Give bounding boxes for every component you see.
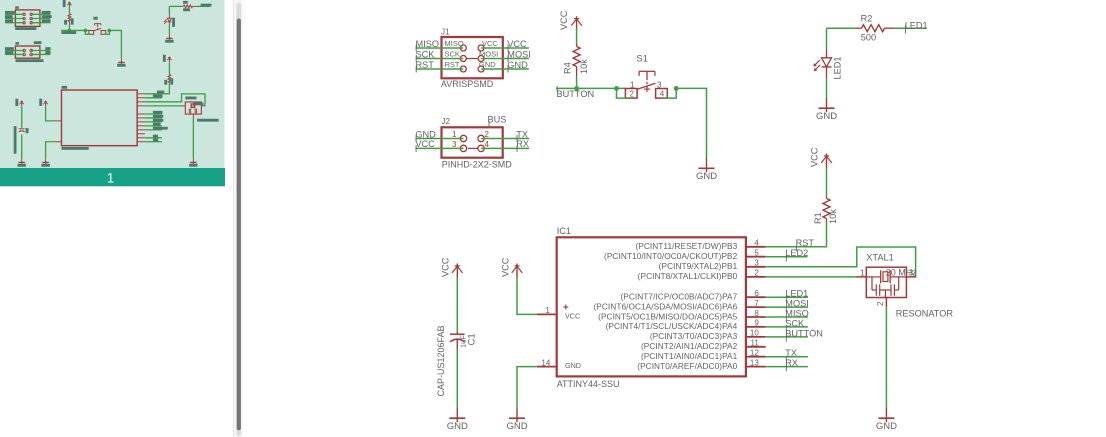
svg-text:GND: GND: [507, 60, 528, 70]
svg-text:LED1: LED1: [833, 57, 843, 80]
svg-text:MISO: MISO: [445, 39, 464, 48]
svg-text:GND: GND: [565, 361, 581, 370]
pin 10 (PCINT3/T0/ADC3)PA3: [650, 329, 766, 342]
svg-text:AVRISPSMD: AVRISPSMD: [441, 79, 494, 89]
svg-text:2: 2: [876, 301, 885, 306]
net label TX: [785, 348, 797, 361]
svg-text:2: 2: [754, 269, 759, 278]
pin 13 (PCINT0/AREF/ADC0)PA0: [637, 358, 765, 371]
wire J1 to MOSI: [481, 58, 529, 60]
svg-text:XTAL1: XTAL1: [866, 253, 893, 263]
pin 5 (PCINT10/INT0/OC0A/CKOUT)PB2: [604, 249, 766, 262]
svg-text:(PCINT7/ICP/OC0B/ADC7)PA7: (PCINT7/ICP/OC0B/ADC7)PA7: [620, 292, 737, 302]
wire LED1 net: [827, 27, 857, 29]
svg-text:SCK: SCK: [416, 49, 436, 59]
svg-text:(PCINT11/RESET/DW)PB3: (PCINT11/RESET/DW)PB3: [635, 241, 737, 251]
net label LED1: [905, 21, 928, 34]
svg-text:GND: GND: [415, 129, 436, 139]
pin 7 (PCINT6/OC1A/SDA/MOSI/ADC6)PA6: [593, 299, 765, 312]
svg-text:1: 1: [860, 268, 865, 277]
connector J1 AVRISPSMD: [441, 27, 503, 78]
svg-text:IC1: IC1: [557, 226, 571, 236]
ground GND (LED1): [816, 98, 837, 122]
svg-text:(PCINT5/OC1B/MISO/DO/ADC5)PA5: (PCINT5/OC1B/MISO/DO/ADC5)PA5: [598, 311, 737, 321]
net label LED1: [785, 289, 808, 302]
net label LED2: [785, 248, 808, 262]
resonator XTAL1 20MHz: [857, 253, 954, 319]
wire: [826, 28, 828, 48]
svg-text:R1: R1: [813, 212, 823, 224]
wire: [617, 88, 631, 98]
svg-text:RX: RX: [516, 139, 529, 149]
svg-text:1uF: 1uF: [459, 335, 468, 348]
wire LED1 net: [766, 296, 808, 298]
wire: [895, 27, 926, 29]
svg-text:2: 2: [485, 130, 490, 139]
svg-text:GND: GND: [479, 60, 496, 69]
svg-text:9: 9: [754, 319, 759, 328]
net label SCK: [785, 318, 805, 331]
wire MOSI net: [766, 306, 808, 308]
scrollbar groove: [236, 3, 241, 437]
svg-text:TX: TX: [516, 129, 528, 139]
svg-text:SCK: SCK: [785, 318, 805, 328]
wire SCK to J1: [416, 58, 464, 60]
svg-text:MOSI: MOSI: [507, 49, 530, 59]
svg-text:3: 3: [754, 259, 759, 268]
resistor R2 500: [856, 14, 895, 43]
svg-text:TX: TX: [785, 348, 797, 358]
svg-text:BUS: BUS: [488, 115, 507, 125]
svg-text:12: 12: [750, 349, 759, 358]
svg-text:GND: GND: [816, 111, 837, 122]
wire VCC to J2: [415, 147, 463, 149]
resistor R4 10k: [563, 44, 590, 76]
wire VCC to pin 1: [517, 278, 537, 315]
svg-text:(PCINT1/AIN0/ADC1)PA1: (PCINT1/AIN0/ADC1)PA1: [641, 351, 738, 361]
pin 12 (PCINT1/AIN0/ADC1)PA1: [641, 349, 766, 362]
svg-text:RST: RST: [796, 238, 815, 248]
svg-text:(PCINT4/T1/SCL/USCK/ADC4)PA4: (PCINT4/T1/SCL/USCK/ADC4)PA4: [606, 321, 738, 331]
power VCC (IC): [500, 257, 522, 278]
ground GND (resonator): [876, 408, 897, 432]
svg-text:RESONATOR: RESONATOR: [896, 308, 954, 318]
svg-text:VCC: VCC: [809, 147, 819, 167]
svg-text:J2: J2: [442, 117, 451, 126]
pin 2 (PCINT8/XTAL1/CLKI)PB0: [638, 269, 766, 282]
svg-text:11: 11: [750, 339, 759, 348]
junction: [614, 86, 619, 91]
svg-text:GND: GND: [696, 171, 717, 182]
svg-text:GND: GND: [506, 421, 527, 432]
svg-text:MISO: MISO: [785, 308, 808, 318]
svg-text:10: 10: [750, 329, 759, 338]
wire: [576, 28, 578, 45]
wire: [664, 88, 677, 98]
svg-text:RX: RX: [785, 358, 798, 368]
power VCC (reset pull-up): [809, 147, 831, 168]
net label MISO: [416, 39, 439, 52]
junction: [574, 86, 579, 91]
wire J1 to GND: [481, 68, 529, 70]
svg-text:14: 14: [541, 358, 550, 367]
wire: [885, 307, 887, 408]
junction: [674, 86, 679, 91]
svg-text:J1: J1: [441, 27, 450, 36]
IC IC1 ATTINY44-SSU: [537, 226, 746, 389]
wire GND to J2: [415, 138, 463, 140]
svg-text:4: 4: [754, 239, 759, 248]
svg-text:VCC: VCC: [441, 257, 451, 277]
svg-text:13: 13: [750, 358, 759, 367]
svg-text:10k: 10k: [828, 209, 838, 224]
wire BUTTON net: [556, 87, 625, 89]
net label RST: [416, 60, 435, 73]
svg-text:8: 8: [754, 309, 759, 318]
resistor R1 10k: [813, 196, 838, 224]
svg-text:6: 6: [754, 289, 759, 298]
svg-text:VCC: VCC: [559, 10, 569, 30]
svg-text:VCC: VCC: [565, 312, 580, 321]
svg-text:(PCINT8/XTAL1/CLKI)PB0: (PCINT8/XTAL1/CLKI)PB0: [638, 271, 738, 281]
sheet tab bar: [0, 168, 225, 186]
svg-text:S1: S1: [636, 54, 648, 65]
wire SCK net: [766, 326, 808, 328]
sheet preview mini schematic: [5, 0, 219, 167]
svg-text:R2: R2: [861, 14, 873, 24]
svg-text:BUTTON: BUTTON: [785, 328, 823, 338]
ground GND (button): [696, 158, 717, 182]
pin 6 (PCINT7/ICP/OC0B/ADC7)PA7: [620, 289, 765, 302]
pin 3 (PCINT9/XTAL2)PB1: [659, 259, 766, 272]
switch S1: [625, 54, 667, 99]
svg-text:LED2: LED2: [785, 248, 808, 258]
scrollbar track: [233, 0, 243, 437]
wire J1 to VCC: [481, 47, 529, 49]
svg-text:(PCINT6/OC1A/SDA/MOSI/ADC6)PA6: (PCINT6/OC1A/SDA/MOSI/ADC6)PA6: [593, 301, 737, 311]
net label GND: [415, 129, 436, 142]
svg-text:(PCINT10/INT0/OC0A/CKOUT)PB2: (PCINT10/INT0/OC0A/CKOUT)PB2: [604, 251, 738, 261]
svg-text:PINHD-2X2-SMD: PINHD-2X2-SMD: [442, 159, 513, 169]
svg-text:BUTTON: BUTTON: [557, 89, 595, 99]
wire LED2 net: [766, 256, 808, 258]
net label RST: [796, 238, 815, 252]
net label SCK: [416, 49, 436, 62]
wire RX net: [766, 366, 808, 368]
wire to ground: [676, 88, 706, 158]
wire J2 to TX: [481, 138, 529, 140]
pin 9 (PCINT4/T1/SCL/USCK/ADC4)PA4: [606, 319, 766, 332]
capacitor C1 1uF: [436, 325, 477, 396]
svg-text:RST: RST: [416, 60, 435, 70]
svg-text:VCC: VCC: [500, 257, 510, 277]
wire TX net: [766, 356, 808, 358]
svg-text:R4: R4: [563, 62, 573, 74]
svg-text:SCK: SCK: [445, 50, 460, 59]
bus label BUS: [488, 115, 507, 128]
wire pin 14 to ground: [517, 367, 537, 408]
svg-text:VCC: VCC: [507, 39, 527, 49]
power VCC (button pull-up): [559, 10, 582, 30]
net label MOSI: [785, 299, 808, 312]
svg-text:(PCINT9/XTAL2)PB1: (PCINT9/XTAL2)PB1: [659, 261, 738, 271]
svg-text:ATTINY44-SSU: ATTINY44-SSU: [557, 379, 620, 389]
pin 8 (PCINT5/OC1B/MISO/DO/ADC5)PA5: [598, 309, 766, 322]
net label RX: [516, 139, 529, 152]
wire MISO net: [766, 316, 808, 318]
svg-text:1: 1: [545, 306, 550, 315]
wire RST to J1: [416, 68, 464, 70]
net label GND: [507, 60, 528, 73]
svg-text:2: 2: [630, 90, 635, 99]
ground GND (IC): [506, 408, 527, 432]
wire: [456, 349, 458, 409]
wire: [826, 168, 828, 196]
wire XTAL1 net: [766, 276, 858, 278]
pin 4 (PCINT11/RESET/DW)PB3: [635, 239, 765, 252]
svg-text:10k: 10k: [579, 59, 589, 74]
svg-text:CAP-US1206FAB: CAP-US1206FAB: [436, 325, 446, 396]
net label TX: [516, 129, 528, 142]
wire XTAL2 net: [766, 247, 916, 277]
net label BUTTON: [785, 328, 823, 341]
net label VCC: [415, 139, 435, 152]
wire J2 to RX: [481, 147, 529, 149]
svg-text:LED1: LED1: [785, 289, 808, 299]
LED LED1: [813, 48, 842, 79]
net label BUTTON: [557, 86, 595, 99]
sheet preview panel background: [0, 0, 225, 168]
wire BUTTON net: [766, 336, 808, 338]
svg-text:RST: RST: [445, 60, 460, 69]
connector J2 PINHD-2X2-SMD: [442, 117, 503, 158]
wire MISO to J1: [416, 47, 464, 49]
svg-text:3: 3: [452, 140, 457, 149]
net label MISO: [785, 308, 808, 321]
svg-text:LED1: LED1: [905, 21, 928, 31]
svg-text:GND: GND: [447, 421, 468, 432]
svg-text:4: 4: [485, 140, 490, 149]
wire: [576, 76, 578, 88]
svg-text:1: 1: [452, 130, 457, 139]
svg-text:(PCINT0/AREF/ADC0)PA0: (PCINT0/AREF/ADC0)PA0: [637, 361, 737, 371]
power VCC (C1): [441, 257, 463, 278]
svg-text:MOSI: MOSI: [479, 50, 498, 59]
svg-text:VCC: VCC: [482, 39, 498, 48]
svg-text:7: 7: [754, 299, 759, 308]
scrollbar thumb: [237, 19, 241, 431]
svg-text:(PCINT3/T0/ADC3)PA3: (PCINT3/T0/ADC3)PA3: [650, 331, 738, 341]
svg-text:VCC: VCC: [415, 139, 435, 149]
wire: [456, 278, 458, 332]
svg-text:(PCINT2/AIN1/ADC2)PA2: (PCINT2/AIN1/ADC2)PA2: [641, 341, 738, 351]
svg-text:5: 5: [754, 249, 759, 258]
svg-text:1: 1: [107, 171, 115, 186]
wire: [826, 78, 828, 98]
net label RX: [785, 358, 798, 371]
svg-text:4: 4: [660, 90, 665, 99]
net label VCC: [507, 39, 527, 52]
svg-text:GND: GND: [876, 421, 897, 432]
wire RST net: [766, 222, 827, 247]
ground GND (C1): [447, 408, 468, 432]
svg-text:MOSI: MOSI: [785, 299, 808, 309]
svg-text:MISO: MISO: [416, 39, 439, 49]
net label MOSI: [507, 49, 530, 62]
pin 11 (PCINT2/AIN1/ADC2)PA2: [641, 339, 766, 352]
svg-text:C1: C1: [466, 333, 477, 345]
svg-text:500: 500: [861, 32, 876, 42]
